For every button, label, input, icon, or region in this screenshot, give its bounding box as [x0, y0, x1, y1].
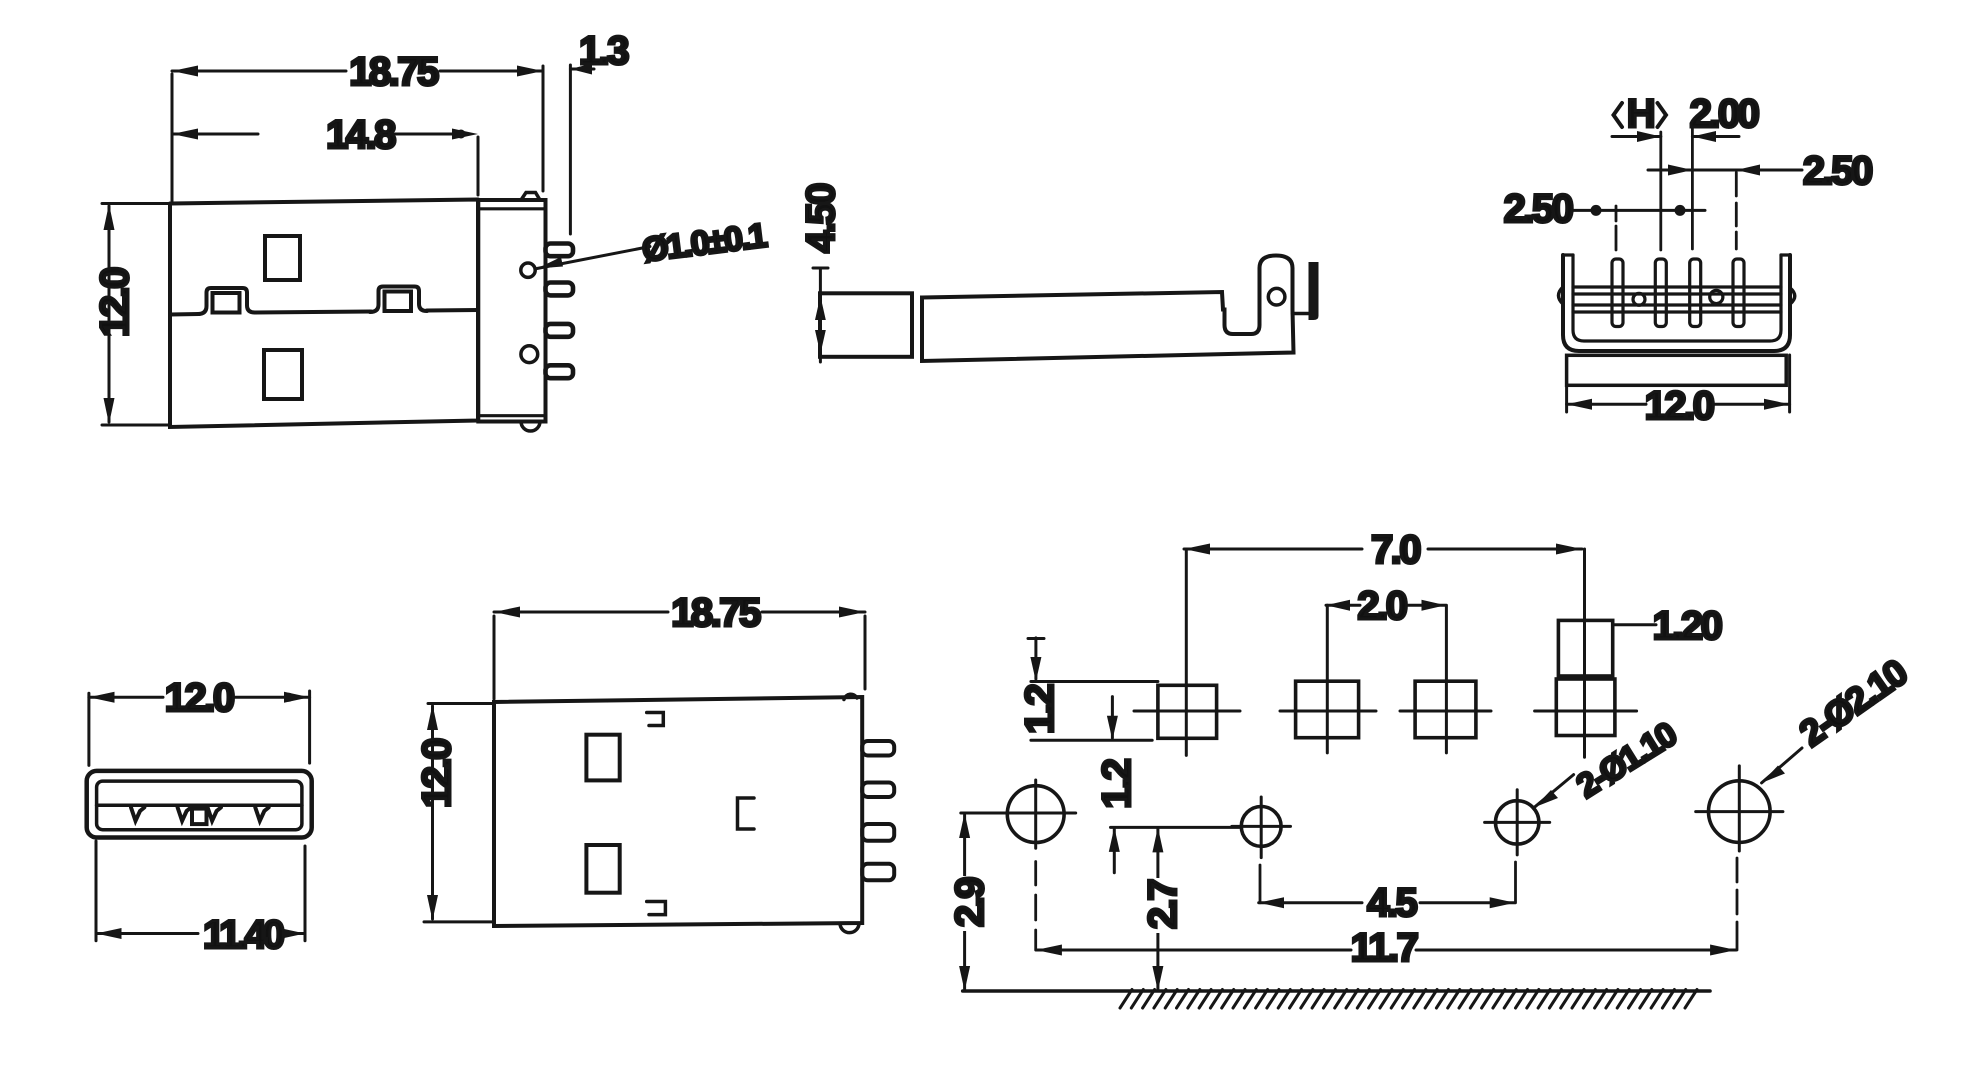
pin 1: [546, 244, 574, 257]
cable crimp band: [820, 293, 912, 357]
tongue rivet left: [1633, 293, 1645, 305]
shell inner wall: [97, 781, 302, 830]
dimension 12.0 top-view: [428, 702, 493, 705]
svg-text:2-Ø1.10: 2-Ø1.10: [1570, 715, 1683, 805]
svg-text:2.7: 2.7: [1141, 880, 1185, 929]
pad 2: [1296, 681, 1359, 738]
leader 2-d2.10: [1762, 748, 1802, 783]
svg-text:2-Ø2.10: 2-Ø2.10: [1792, 651, 1915, 754]
pin1 extension line: [1615, 206, 1618, 250]
pad 3 crosslines: [1400, 710, 1491, 713]
lock post hole: [1268, 288, 1285, 305]
dimension 14.8: [477, 137, 480, 195]
pin 3: [546, 324, 574, 337]
rear flange: [478, 200, 545, 422]
hole upper: [586, 735, 619, 781]
bracket mark bottom: [647, 902, 666, 915]
latch window right: [370, 287, 427, 313]
hole 2 (1.10): [1241, 807, 1281, 847]
svg-text:2.0: 2.0: [1357, 584, 1406, 628]
dimension (H): [1612, 135, 1661, 138]
dimension 2.00: [1692, 135, 1739, 138]
flange lower hole: [521, 346, 538, 363]
svg-text:12.0: 12.0: [165, 676, 234, 720]
pin4 extension line: [1735, 173, 1738, 250]
body outline: [494, 697, 862, 926]
dimension 4.5: [1259, 901, 1362, 904]
svg-text:2.50: 2.50: [1803, 149, 1872, 193]
hole 4 (2.10): [1709, 781, 1771, 843]
shell U outer wall: [1563, 255, 1790, 351]
pin 2: [546, 283, 574, 296]
shell side profile: [922, 256, 1294, 362]
svg-text:4.5: 4.5: [1367, 881, 1417, 925]
svg-text:18.75: 18.75: [671, 591, 761, 635]
crimp dimple right: [1790, 288, 1795, 304]
pcb surface line: [963, 989, 1710, 993]
leader d1.0+-0.1: [537, 247, 650, 269]
dimension 18.75 top-view: [493, 616, 496, 699]
body mid parting line: [170, 310, 478, 315]
dimension 2.0: [1326, 604, 1360, 607]
svg-text:2.00: 2.00: [1690, 92, 1759, 136]
wire hole (d1.0): [521, 263, 535, 277]
C mark: [738, 798, 755, 829]
tongue rivet right: [1710, 290, 1723, 303]
rivet bump bottom: [840, 923, 859, 933]
hole lower: [586, 845, 619, 893]
dimension 11.7: [1036, 949, 1351, 952]
pin 1: [1612, 259, 1623, 327]
dimension 11.40: [95, 841, 98, 941]
pin 4: [546, 365, 574, 378]
svg-text:11.7: 11.7: [1351, 926, 1418, 970]
pad 3: [1415, 681, 1476, 738]
pcb stop step: [1293, 312, 1310, 316]
svg-text:2.50: 2.50: [1504, 187, 1573, 231]
pin 4: [1733, 259, 1744, 327]
connector body outline: [170, 200, 478, 428]
pin 2: [1655, 259, 1666, 327]
dimension 1.3: [569, 65, 572, 234]
svg-text:11.40: 11.40: [203, 913, 284, 957]
pad 1 crosslines: [1134, 710, 1240, 713]
dimension 1.2 lower: [1111, 826, 1240, 829]
svg-text:14.8: 14.8: [326, 113, 396, 157]
pin2 extension line: [1659, 132, 1662, 250]
svg-text:12.0: 12.0: [93, 268, 137, 337]
leader 1.20: [1613, 623, 1656, 626]
flange top tab: [521, 193, 540, 201]
pad 4 slot rectangle: [1558, 620, 1612, 676]
dimension 18.75: [171, 74, 174, 201]
contact tongue lines: [1573, 285, 1781, 288]
shell U inner wall: [1573, 255, 1781, 341]
svg-text:12.0: 12.0: [1645, 384, 1714, 428]
leader 2-d1.10: [1535, 775, 1574, 808]
hole 1 (2.10): [1007, 786, 1064, 843]
svg-text:2.9: 2.9: [948, 878, 992, 927]
hole 1 centerline: [1034, 862, 1037, 951]
hole 3 centerline: [1514, 862, 1517, 903]
svg-text:1.20: 1.20: [1653, 604, 1722, 648]
pad 1: [1158, 685, 1217, 738]
dimension 2.50 left: [1572, 209, 1705, 212]
wall top caps: [1563, 253, 1573, 256]
pad 4: [1556, 679, 1615, 736]
hole 3 (1.10): [1496, 801, 1539, 844]
tongue edge: [97, 804, 302, 808]
pin 3: [1690, 259, 1701, 327]
pin 4 top-view: [862, 864, 894, 881]
dimension 7.0: [1184, 548, 1362, 551]
svg-text:1.2: 1.2: [1095, 759, 1139, 808]
contact V 1: [131, 808, 144, 821]
hole 2 centerline: [1259, 865, 1262, 903]
flange bottom tab: [521, 422, 540, 432]
svg-text:1.3: 1.3: [579, 29, 628, 73]
pin 1 top-view: [862, 741, 894, 756]
dimension 2.50 right: [1648, 169, 1802, 172]
rivet bump top: [844, 694, 857, 699]
dimension 1.2 upper: [1031, 680, 1158, 683]
contact V 2: [178, 808, 191, 821]
dimension 12.0 left: [102, 202, 168, 205]
svg-text:1.2: 1.2: [1018, 685, 1062, 734]
pad 4 crosslines: [1535, 710, 1637, 713]
shell hole upper: [265, 236, 300, 280]
tongue notch: [192, 809, 207, 825]
shell outline: [87, 771, 312, 838]
dimension 12.0 face: [87, 693, 90, 765]
dimension 4.50: [813, 267, 828, 270]
dimension 12.0 rear: [1565, 385, 1568, 412]
bracket mark top: [647, 713, 664, 726]
solder tab (filled): [1309, 262, 1319, 320]
pin 3 top-view: [862, 824, 894, 841]
pcb hatching: [1120, 990, 1697, 1009]
shell hole lower: [264, 350, 302, 399]
dimension 2.7: [1156, 829, 1159, 989]
svg-text:18.75: 18.75: [349, 50, 439, 94]
contact V 4: [255, 808, 268, 821]
svg-text:12.0: 12.0: [415, 739, 459, 808]
svg-text:7.0: 7.0: [1371, 528, 1420, 572]
hole 4 centerline: [1736, 858, 1739, 950]
svg-text:Ø1.0±0.1: Ø1.0±0.1: [640, 217, 768, 270]
dimension 2.9: [963, 815, 966, 989]
svg-text:H: H: [1627, 92, 1654, 136]
svg-text:4.50: 4.50: [799, 184, 843, 253]
contact V 3: [208, 808, 221, 821]
latch window left: [198, 288, 255, 314]
crimp dimple left: [1559, 287, 1564, 304]
pin3 extension line: [1691, 128, 1694, 249]
pin 2 top-view: [862, 783, 894, 798]
moulded base: [1567, 355, 1787, 385]
pad 2 crosslines: [1280, 710, 1376, 713]
